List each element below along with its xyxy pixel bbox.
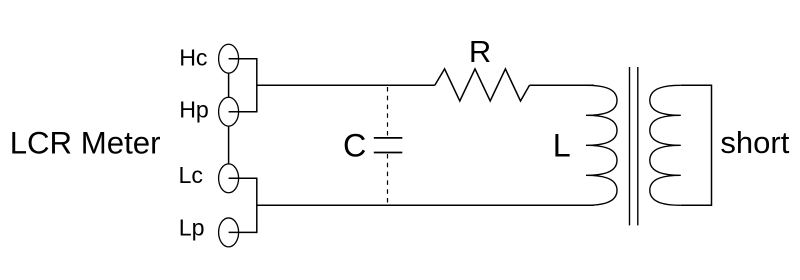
svg-text:Hp: Hp — [179, 96, 209, 122]
svg-text:L: L — [553, 128, 571, 164]
svg-text:short: short — [720, 125, 789, 160]
svg-text:Hc: Hc — [179, 45, 207, 71]
svg-text:Lp: Lp — [179, 215, 205, 241]
svg-text:Lc: Lc — [179, 162, 204, 188]
svg-text:LCR Meter: LCR Meter — [10, 126, 161, 161]
svg-text:C: C — [343, 128, 366, 164]
svg-text:R: R — [469, 34, 491, 69]
